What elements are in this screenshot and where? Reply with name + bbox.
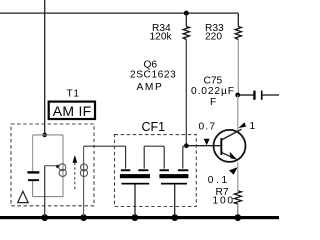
- svg-text:F: F: [210, 97, 216, 108]
- svg-text:T1: T1: [67, 88, 80, 99]
- svg-text:AM IF: AM IF: [53, 103, 92, 119]
- svg-text:0.7: 0.7: [199, 122, 217, 133]
- svg-text:2SC1623: 2SC1623: [130, 70, 176, 81]
- svg-text:0.022µF: 0.022µF: [191, 86, 235, 97]
- svg-text:0.1: 0.1: [208, 175, 230, 186]
- svg-text:CF1: CF1: [142, 120, 166, 134]
- svg-text:1: 1: [250, 121, 256, 132]
- svg-text:100: 100: [213, 196, 235, 207]
- svg-text:C75: C75: [204, 76, 223, 87]
- svg-text:220: 220: [205, 31, 222, 42]
- svg-text:AMP: AMP: [137, 82, 164, 93]
- svg-text:120k: 120k: [150, 31, 173, 42]
